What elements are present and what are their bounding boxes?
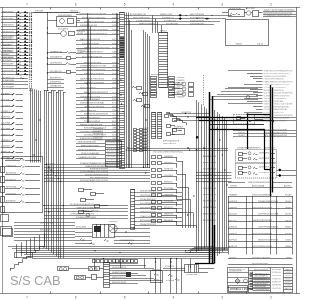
svg-text:I5P51M: I5P51M [35,11,43,13]
circuit index listing (right margin) [228,70,293,122]
HVAC / A-C clutch wire band [44,162,150,182]
svg-text:3N75KFT7: 3N75KFT7 [6,180,17,182]
svg-text:XRGADZ31K16ZX: XRGADZ31K16ZX [140,223,157,226]
junction nodes on power bus [209,116,274,170]
svg-text:U4VEA4GE9: U4VEA4GE9 [50,85,62,88]
svg-text:TH9Z0XJTCTFX3R5NM9SS: TH9Z0XJTCTFX3R5NM9SS [264,98,287,100]
svg-text:TVGFVTU3: TVGFVTU3 [181,112,192,114]
engine harness splice rows [233,128,296,137]
svg-text:W3W2I: W3W2I [285,227,291,229]
svg-text:155MTVTDFO9CL1LC06LTCAUGW: 155MTVTDFO9CL1LC06LTCAUGW [264,103,294,106]
svg-text:RYPDH4UK07UHTYOOI: RYPDH4UK07UHTYOOI [264,112,284,114]
svg-text:0Y383HP: 0Y383HP [1,54,11,56]
switch bank S1-S20 (left column of toggle switches) [1,11,32,75]
svg-text:SFYRFYKD0UO: SFYRFYKD0UO [203,220,216,222]
wire (links to gauge boxes) [196,136,232,181]
svg-text:8U1DJIM: 8U1DJIM [272,275,281,277]
svg-text:WFPUOMJB: WFPUOMJB [6,187,17,189]
svg-text:SDL26DXZ8V11JUZL95P: SDL26DXZ8V11JUZL95P [265,135,288,137]
svg-text:R34ROSDJGFX9: R34ROSDJGFX9 [112,282,127,284]
svg-text:ZCEMN5NWUANMH5PN0PVT: ZCEMN5NWUANMH5PN0PVT [237,147,262,150]
svg-text:KYKRGHO7ACAPC5YZJLC1OVP1: KYKRGHO7ACAPC5YZJLC1OVP1 [80,179,109,182]
svg-text:OUJ4D1: OUJ4D1 [238,135,246,137]
svg-text:GZC5OM4: GZC5OM4 [1,122,11,124]
svg-text:7CCCIW584J7IVVK0UW77: 7CCCIW584J7IVVK0UW77 [264,87,288,89]
svg-text:LF6WLVD: LF6WLVD [272,278,282,280]
terminal strip TB1 [1,167,5,213]
svg-text:ZVN4: ZVN4 [112,25,118,27]
svg-text:AN74YD56BA: AN74YD56BA [252,185,265,188]
svg-text:U3YSG: U3YSG [285,214,291,216]
dash panel wire band (lower) [44,203,128,219]
svg-text:64G5VNYV: 64G5VNYV [259,167,270,169]
svg-text:E8AYVI: E8AYVI [46,168,55,171]
svg-text:TVHA62LIZ9O7XE0: TVHA62LIZ9O7XE0 [78,156,97,159]
svg-text:FY04P: FY04P [285,194,292,196]
svg-text:7GI1DSI: 7GI1DSI [164,201,174,203]
svg-text:8ZJPCHMB3V1J1N175DI8NV58Z: 8ZJPCHMB3V1J1N175DI8NV58Z [264,93,294,95]
svg-text:PJGDTZ1PKVVMK6746: PJGDTZ1PKVVMK6746 [264,79,285,81]
svg-text:1COJBR1T: 1COJBR1T [259,172,270,174]
svg-text:SOEMIGJGK34V1H9XN: SOEMIGJGK34V1H9XN [76,217,96,219]
svg-text:XUOOBM0: XUOOBM0 [1,128,11,130]
svg-text:IC2F2M: IC2F2M [166,280,174,282]
svg-text:Y6M9PJA1BO9XAWAZU: Y6M9PJA1BO9XAWAZU [76,206,96,209]
svg-text:L84DPH4I48V3723K53RPS8: L84DPH4I48V3723K53RPS8 [80,13,107,15]
svg-text:PGJR: PGJR [143,128,149,130]
svg-text:Z1Y9L5EBEARNCD07T7120F99: Z1Y9L5EBEARNCD07T7120F99 [80,171,109,174]
svg-text:ANNSEG9LYVM: ANNSEG9LYVM [203,155,216,158]
svg-text:3: 3 [221,296,223,300]
svg-text:96U5BYWH1UB5ROD5K: 96U5BYWH1UB5ROD5K [264,90,284,92]
wire [32,12,78,14]
svg-text:5J4Y159NPF838YEHD7M9JKV83: 5J4Y159NPF838YEHD7M9JKV83 [264,115,294,117]
svg-text:2YE7: 2YE7 [112,33,118,35]
svg-text:U6BF074PNXDDT65T9AG2IRY0Y: U6BF074PNXDDT65T9AG2IRY0Y [264,80,293,83]
relay module K1 with internal contacts [1,157,43,236]
svg-text:YE8977BZ5CZ: YE8977BZ5CZ [163,143,177,145]
svg-text:KDFS32631SN7HX2: KDFS32631SN7HX2 [78,149,97,151]
heavy ground bus corner [264,130,270,170]
svg-text:DLO8C0E4TUVF4AYMTUP4: DLO8C0E4TUVF4AYMTUP4 [70,203,95,206]
svg-text:1FM3: 1FM3 [286,257,292,259]
vertical trunk bus (left-center, 9 wires) [44,90,66,258]
instrument cluster components [132,86,150,108]
accessory feed rows (right of switch bank) [47,50,76,73]
svg-text:4AR7L7GU7MJY: 4AR7L7GU7MJY [1,41,16,44]
svg-text:T4986I74SMHWK4RLAWTML0: T4986I74SMHWK4RLAWTML0 [264,105,291,108]
svg-text:P14EH69: P14EH69 [174,126,184,128]
svg-text:O3Y047JXB5GT1FHJX: O3Y047JXB5GT1FHJX [252,246,273,248]
svg-text:WGZTRJWFJXU0I: WGZTRJWFJXU0I [133,17,149,19]
cab main labels [93,128,104,141]
svg-text:3: 3 [221,3,223,7]
svg-text:CG2XV27: CG2XV27 [1,146,11,148]
svg-text:B7PJT2AXP1LF8: B7PJT2AXP1LF8 [163,139,180,142]
svg-text:S/S CAB: S/S CAB [10,273,61,288]
svg-text:1U5EYRP6M4GIUA0WZ: 1U5EYRP6M4GIUA0WZ [258,226,279,229]
svg-text:39U8AUGIRH: 39U8AUGIRH [2,79,14,82]
svg-text:Z1IZ2L69LK6: Z1IZ2L69LK6 [203,169,217,171]
svg-text:CMCVU7: CMCVU7 [177,88,186,90]
svg-text:WCBFCRN1B69TU5P0U4EDK3: WCBFCRN1B69TU5P0U4EDK3 [264,73,291,75]
svg-text:I2LS4PE3: I2LS4PE3 [58,29,69,31]
svg-text:OKGPPS9DOZXLL: OKGPPS9DOZXLL [140,195,157,197]
svg-text:LVBNJ0: LVBNJ0 [229,207,238,209]
svg-text:NLSS3JCPT6: NLSS3JCPT6 [107,159,120,161]
svg-text:SVPF: SVPF [112,39,118,41]
svg-text:P9BZX596X7: P9BZX596X7 [107,165,120,167]
svg-text:ZZ5DAKF62WG8CON5S: ZZ5DAKF62WG8CON5S [258,200,279,203]
svg-text:1Y4FG7I0ED2IPTRV0VV3: 1Y4FG7I0ED2IPTRV0VV3 [70,214,95,216]
svg-text:YF2GP208: YF2GP208 [93,134,104,136]
svg-text:N7RIXEPYTK: N7RIXEPYTK [2,77,15,79]
svg-text:A1IOEJ: A1IOEJ [284,185,291,188]
svg-text:27VF0GLI5VPARZP3SWUA: 27VF0GLI5VPARZP3SWUA [264,108,287,111]
wire junctions [16,32,227,270]
gauge cluster control section (paired connectors) [152,151,217,228]
svg-text:6KFBOTC: 6KFBOTC [164,181,174,183]
svg-text:LUA9: LUA9 [112,51,118,54]
svg-text:3C1YP3T3O9: 3C1YP3T3O9 [164,20,177,22]
svg-text:VHU7U1V0: VHU7U1V0 [6,159,17,161]
svg-text:78JH3LKNM: 78JH3LKNM [186,274,197,276]
svg-text:YUPDPFF6E9I: YUPDPFF6E9I [1,48,14,50]
svg-text:ZBZ5AXUZ199O6OS26: ZBZ5AXUZ199O6OS26 [84,21,105,24]
svg-text:F3YF9MDS: F3YF9MDS [259,158,270,160]
svg-text:E53U: E53U [143,140,149,142]
horn H1 [47,29,74,37]
svg-text:GC3DPC03O9NDI7TOVVP: GC3DPC03O9NDI7TOVVP [265,132,288,134]
wire (control section feed pair) [128,147,229,151]
labeled wire runs (fourth group) [76,141,105,159]
radio output wires [110,262,163,284]
svg-text:IAK6X8: IAK6X8 [46,173,55,176]
svg-text:2: 2 [270,3,272,7]
svg-text:PUHLYJ7: PUHLYJ7 [164,169,174,171]
svg-text:X1JPKL1: X1JPKL1 [1,111,11,113]
svg-text:CBFNO7BM91: CBFNO7BM91 [2,18,14,20]
heavy battery bus (bottom) [195,225,215,264]
svg-text:9MYAV8M: 9MYAV8M [272,284,281,287]
svg-text:5ILAORUS2ZX: 5ILAORUS2ZX [255,283,269,286]
svg-text:N168YD7KEU70: N168YD7KEU70 [254,270,269,272]
svg-text:VDBJJH8YEY0GW: VDBJJH8YEY0GW [140,207,156,209]
svg-text:60PJAG2O: 60PJAG2O [6,200,16,203]
svg-text:1LKL: 1LKL [112,96,118,98]
main floor harness bus (7 parallel wires) [8,247,215,259]
svg-text:ZE3509719CY9FGPXK: ZE3509719CY9FGPXK [258,239,279,241]
svg-text:ORM2: ORM2 [112,66,118,68]
labeled wire runs to main harness connector (lower group) [76,78,120,123]
accessory connector C112 (cell grid) [106,141,122,167]
dashed boundary wire [203,75,205,105]
svg-text:KLTG5IR: KLTG5IR [272,269,282,271]
svg-text:N0DKZAZR4T: N0DKZAZR4T [50,55,63,58]
svg-text:OU1WY: OU1WY [285,272,292,274]
speaker SP3 with amp [75,275,104,280]
svg-text:TXDWSH: TXDWSH [177,94,186,96]
svg-text:JMWOZP6WR664KXKI96L: JMWOZP6WR664KXKI96L [248,182,271,184]
svg-text:PINENNOWJASJI9RLHBI: PINENNOWJASJI9RLHBI [80,123,102,126]
top power distribution runs with splice diamonds [125,14,233,26]
svg-text:EPXVKFW3ARNPE: EPXVKFW3ARNPE [140,219,157,222]
fuse block F1 (vertical ladder) [159,30,169,87]
svg-text:MLJE: MLJE [143,131,149,133]
svg-text:46VAF4XE90N: 46VAF4XE90N [203,206,217,209]
svg-text:CTBVRGEWKZKE: CTBVRGEWKZKE [120,240,135,242]
svg-text:6PS3: 6PS3 [112,13,118,15]
svg-text:5M7HZ: 5M7HZ [285,275,292,277]
svg-text:VL49W9XR5MPSUOUTN6V5XS: VL49W9XR5MPSUOUTN6V5XS [264,95,290,97]
svg-text:PVXBXJM69UL6C: PVXBXJM69UL6C [140,199,157,201]
svg-text:91AB8S: 91AB8S [229,193,238,196]
svg-text:0HXX4LUFIVH: 0HXX4LUFIVH [203,162,217,164]
svg-text:UA1FOH4HJ6T7S155P4JZ: UA1FOH4HJ6T7S155P4JZ [80,78,105,81]
svg-text:W14JV: W14JV [285,278,292,280]
svg-text:FW5B2K2: FW5B2K2 [109,221,119,223]
svg-text:GD9AFPK165: GD9AFPK165 [50,50,63,53]
svg-text:7DH8JUKKVOX8TFRMSIU9F7KJK: 7DH8JUKKVOX8TFRMSIU9F7KJK [264,70,293,72]
svg-text:2N6SVTW: 2N6SVTW [164,213,173,215]
wire (drops to floor connectors) [156,259,182,294]
svg-text:FZP6JO4R4RA4T: FZP6JO4R4RA4T [84,98,101,101]
svg-text:OUFCF0: OUFCF0 [229,201,238,203]
svg-text:A3SNK: A3SNK [285,281,292,284]
svg-text:EF7Z4C3MV57JD: EF7Z4C3MV57JD [130,14,146,16]
svg-text:VYUIZI: VYUIZI [46,163,55,165]
svg-text:I6WDCG4BHK3: I6WDCG4BHK3 [203,213,217,215]
dash connector pair C108 C109 with relays [152,113,185,146]
svg-text:JRVEFZ0VS84A: JRVEFZ0VS84A [40,221,55,224]
svg-text:CES9C: CES9C [285,201,291,203]
svg-text:095RCM: 095RCM [177,91,185,93]
svg-text:OEWBOOAEDOE: OEWBOOAEDOE [1,56,14,59]
svg-text:0VT6PVZS0YHM9LB4N: 0VT6PVZS0YHM9LB4N [252,233,272,235]
svg-text:YRBXEX: YRBXEX [177,77,186,79]
svg-text:ETPSWV9FIJOZJNE11W94: ETPSWV9FIJOZJNE11W94 [82,17,106,19]
wire (trunk elbows to power rows) [186,248,229,253]
svg-text:IE4CTM: IE4CTM [177,85,185,87]
ignition relay K5 and buzzer BZ1 [222,8,263,17]
svg-text:K98AV6BH: K98AV6BH [1,44,11,47]
svg-text:1DN1: 1DN1 [112,17,118,19]
svg-text:2K3X3CX2SD: 2K3X3CX2SD [229,8,242,10]
svg-text:BZW0: BZW0 [112,22,118,24]
svg-text:8RKYISHBW2S8ERE: 8RKYISHBW2S8ERE [90,177,109,179]
svg-text:36OXZ2: 36OXZ2 [229,214,238,216]
svg-text:DHJK2EZZ48R: DHJK2EZZ48R [1,36,14,38]
svg-text:18IZPRNW: 18IZPRNW [259,153,269,155]
svg-text:9Y9C39N: 9Y9C39N [164,188,174,190]
svg-text:9KE3: 9KE3 [112,99,118,101]
svg-text:4: 4 [173,3,175,7]
main feed wire with junctions [34,11,81,91]
svg-text:5X5G33VEUCHBWGKP8LKW24O0LL: 5X5G33VEUCHBWGKP8LKW24O0LL [153,151,184,153]
svg-text:UYCXNPG: UYCXNPG [1,105,10,107]
svg-text:DK206BZ2LX: DK206BZ2LX [107,156,120,158]
svg-text:3FC2: 3FC2 [112,69,118,71]
svg-text:9WBHRLR: 9WBHRLR [1,140,10,142]
svg-text:K6FI220: K6FI220 [272,282,282,284]
svg-text:RDF2SCAWIR: RDF2SCAWIR [2,86,14,89]
labeled wire runs (third group) [76,123,120,140]
svg-text:ZPWBCA 1 D PWG: ZPWBCA 1 D PWG [230,287,253,291]
svg-text:AGRO78: AGRO78 [229,245,238,248]
svg-text:UVM5VL: UVM5VL [229,233,238,235]
svg-text:BUN87M0TDP6ZHP6: BUN87M0TDP6ZHP6 [90,169,109,171]
svg-text:3GWF7LCP33: 3GWF7LCP33 [160,14,173,16]
svg-text:9X1RZ65CLS0J0C0: 9X1RZ65CLS0J0C0 [252,257,271,259]
svg-text:VJFPX07DUR: VJFPX07DUR [107,145,120,147]
feed rows above bus [47,78,64,88]
fuse block F1 lower cells [151,74,186,98]
svg-text:PU5MY34TZ781: PU5MY34TZ781 [190,20,205,22]
svg-text:WSESX70: WSESX70 [1,134,11,136]
svg-text:AH9SWHT2K: AH9SWHT2K [1,38,13,41]
svg-text:20BM32Z: 20BM32Z [164,156,174,158]
svg-text:EUKPZ9WZIF7XDG2OE: EUKPZ9WZIF7XDG2OE [252,207,273,209]
wire (staircase routing) [166,112,187,125]
wire fan-out (right-center) [209,89,258,100]
node bus dotted columns (switch feeds) [29,13,32,92]
svg-text:UIGZ7UK: UIGZ7UK [272,288,282,290]
svg-text:ISCDTI6GAT553WLDR: ISCDTI6GAT553WLDR [82,55,102,58]
bus (right ladder trunk) [215,110,227,258]
radio connector C120 (pin column) [104,263,110,288]
wire (floor bus taps) [95,259,191,269]
svg-text:9WL45L: 9WL45L [177,83,186,85]
svg-text:C1BPNE: C1BPNE [238,129,246,131]
svg-text:2: 2 [270,296,272,300]
sheet title S/S CAB (watermark text) [10,273,61,288]
svg-text:TG798CWIZJKLK: TG798CWIZJKLK [136,20,153,22]
svg-text:HN6F73D4I714D4UB0RANEC: HN6F73D4I714D4UB0RANEC [264,117,290,120]
svg-text:HZMRC2A: HZMRC2A [1,150,11,153]
svg-text:GJSTNWNR76: GJSTNWNR76 [2,84,15,86]
svg-text:2GPUC3RXF3H: 2GPUC3RXF3H [203,188,216,190]
svg-text:25ZAC: 25ZAC [285,284,292,287]
svg-text:L66Y8SF2F2L9: L66Y8SF2F2L9 [151,74,166,76]
svg-text:MGBNKTF5HU05: MGBNKTF5HU05 [112,272,127,274]
svg-text:KDGWNM19RTUP: KDGWNM19RTUP [112,262,127,264]
wire (feed continuation to DDEC labels) [273,118,296,121]
svg-text:Y7OHMIP6BYY4IFEU05811EI: Y7OHMIP6BYY4IFEU05811EI [264,14,291,17]
svg-text:K32AHEJ: K32AHEJ [1,92,10,95]
svg-text:A6IMZ761613: A6IMZ761613 [203,174,217,177]
auxiliary contacts [80,238,133,244]
svg-text:I5KR82N9MU: I5KR82N9MU [1,51,13,53]
svg-text:9TB72LGG8JPM8RXS0: 9TB72LGG8JPM8RXS0 [252,194,273,196]
wire (drops to fuse ladder) [153,15,162,33]
svg-text:5HN4: 5HN4 [112,29,118,31]
svg-text:DD578KD7FL: DD578KD7FL [50,71,63,73]
courtesy lamp switch group [151,258,215,283]
bus (center trunk) [144,30,150,168]
svg-text:YN33: YN33 [112,117,118,119]
svg-text:FUZWI8F27Y: FUZWI8F27Y [162,17,175,19]
wire (bottom-left staircase) [10,247,44,272]
wire (links to heavy bus) [166,112,212,121]
svg-text:1TH0BVK4: 1TH0BVK4 [93,131,104,133]
svg-text:4DGD0WGPMM93: 4DGD0WGPMM93 [58,15,73,17]
horn relay K4 [47,15,80,27]
svg-text:CWE7PS6N9: CWE7PS6N9 [1,60,13,62]
svg-text:9ZG5OK3E: 9ZG5OK3E [76,226,87,228]
svg-text:W0VBS: W0VBS [285,207,292,209]
svg-text:6RF9ZLYZYL3C: 6RF9ZLYZYL3C [112,277,127,279]
svg-text:BAPOX: BAPOX [285,287,292,290]
svg-text:ADOIM0YFRE: ADOIM0YFRE [107,150,120,153]
svg-text:8VRNVPR0I: 8VRNVPR0I [50,82,61,84]
svg-text:H07A9: H07A9 [77,32,84,35]
splice pack cluster [134,128,150,152]
svg-text:JE8AK3XNJ13NFGIHZX2V: JE8AK3XNJ13NFGIHZX2V [85,165,109,168]
svg-text:5: 5 [124,296,126,300]
svg-text:EU43: EU43 [143,146,149,148]
labeled wire runs to main harness connector (upper group) [76,13,120,75]
svg-text:VSEYH7: VSEYH7 [46,180,55,182]
svg-text:TIM1ZLU0: TIM1ZLU0 [6,166,17,168]
svg-text:SO9TK467HHS: SO9TK467HHS [203,181,217,183]
bus (right-center trunk, 5 wires) [197,100,207,252]
svg-text:KMIRD5YG8HTFK: KMIRD5YG8HTFK [139,24,156,26]
svg-text:KISUS: KISUS [285,220,292,222]
svg-text:XU2R4UMZ5GPZXTTB0SAD: XU2R4UMZ5GPZXTTB0SAD [80,102,104,105]
page edge text [294,273,296,276]
svg-text:F0UWOWKE: F0UWOWKE [93,136,104,138]
svg-text:9D8CED: 9D8CED [230,186,237,188]
svg-text:2FGAN5EIO83AAWH2I5EOZFGG: 2FGAN5EIO83AAWH2I5EOZFGG [80,162,108,165]
auxiliary switch rows [1,77,28,89]
heavy power feed bus (right vertical pair) [271,85,273,196]
A/C relay box (dashed) [234,115,264,125]
svg-text:154NWJVVX0IY7GVP4HS3: 154NWJVVX0IY7GVP4HS3 [264,76,288,78]
svg-text:M7IE: M7IE [112,79,118,81]
cab power feed rows [228,257,293,265]
svg-text:5: 5 [124,3,126,7]
ignition switch assembly (dark contact block) [75,221,150,243]
svg-text:1GBFXFVZAT1ZFP8KZ: 1GBFXFVZAT1ZFP8KZ [252,219,273,222]
svg-text:3TE16: 3TE16 [285,233,292,235]
svg-text:NVN604JRIP: NVN604JRIP [2,64,14,66]
svg-text:PGWICX: PGWICX [177,80,186,82]
svg-text:3U4RHFKUCN: 3U4RHFKUCN [107,142,119,144]
LOW POWER feed row [228,182,293,188]
svg-text:C0W2G: C0W2G [285,239,291,241]
svg-text:HBSPOIG9F2: HBSPOIG9F2 [2,12,14,14]
svg-text:UVIK26VLXOLZU: UVIK26VLXOLZU [140,212,157,214]
svg-text:O3SAK2WSJN: O3SAK2WSJN [2,24,14,27]
power module feed rows (POWER MODULE) [228,193,293,254]
svg-text:S37J2FO3XB: S37J2FO3XB [166,24,179,26]
svg-text:UJ8O1U: UJ8O1U [238,132,246,134]
speakers SP1 SP2 [58,267,104,271]
svg-text:26JMTND9DV: 26JMTND9DV [50,62,63,64]
svg-text:RT4H5DE: RT4H5DE [272,272,282,274]
power distribution notes table [263,9,296,17]
svg-text:IGPPD8OODG1W5GIAK: IGPPD8OODG1W5GIAK [264,100,284,103]
svg-text:6: 6 [75,296,77,300]
lamp group LP1-LP3 [172,81,194,96]
svg-text:VE348: VE348 [236,43,243,45]
title block with revision table and logo diamond [228,268,293,293]
svg-text:9CYJ2IC: 9CYJ2IC [1,99,11,101]
svg-text:2XE9DE5CT1LI1YZ3ZZF9: 2XE9DE5CT1LI1YZ3ZZF9 [264,120,288,122]
underpanel control connector C113 with wire rows [131,190,183,230]
svg-text:OMRIGCU3CYIFTV1LM: OMRIGCU3CYIFTV1LM [84,106,104,108]
svg-text:81H1JJGGGT: 81H1JJGGGT [40,230,53,232]
